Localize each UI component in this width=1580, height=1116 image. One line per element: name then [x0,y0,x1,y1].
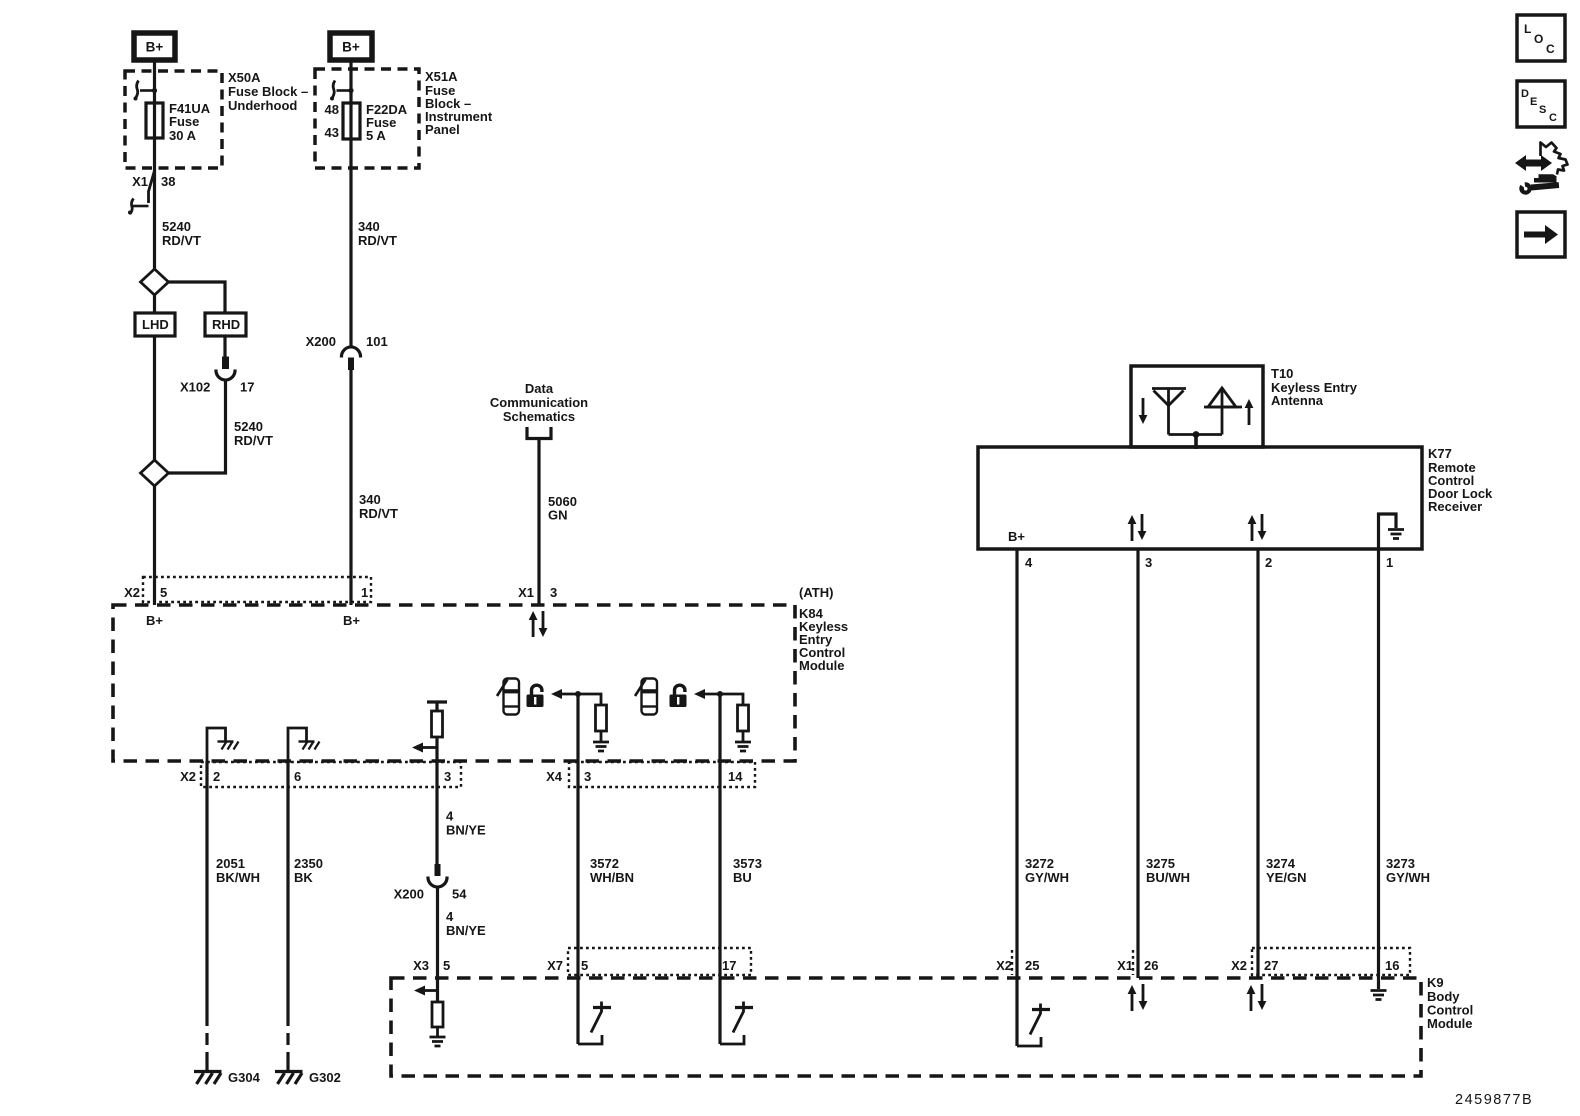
ground G304 [194,1062,222,1084]
output arrow inside K9 at pin X3-5 [414,986,438,996]
svg-text:340: 340 [358,219,380,234]
label 4 BN/YE lower [446,909,486,938]
antenna element right [1204,388,1242,435]
label X200 101 [306,334,388,349]
svg-text:X102: X102 [180,380,210,395]
svg-text:S: S [1539,104,1546,116]
svg-text:X2: X2 [996,958,1012,973]
svg-text:5: 5 [581,958,588,973]
label 5240 RD/VT [162,219,201,248]
wire K84 pin 14 to K9 switch [718,694,721,1044]
wire X102 to splice diamond S2 [169,382,226,474]
svg-text:BU/WH: BU/WH [1146,870,1190,885]
svg-text:B+: B+ [146,613,163,628]
svg-text:38: 38 [161,174,175,189]
K84 bottom connector pin box X4 (pins 3,14) dotted [569,762,755,787]
svg-text:3: 3 [550,585,557,600]
icon service double-arrow with wrench [1515,143,1568,195]
svg-text:14: 14 [728,769,743,784]
svg-text:30 A: 30 A [169,128,197,143]
icon LOC box [1517,15,1565,61]
K84 bottom connector pin box X2 (pins 2,6,3) dotted [201,762,461,787]
wire diamond S1 to RHD [169,282,226,313]
label 3273 GY/WH [1386,856,1430,885]
wire K77 pin 4 (B+) down to K9 pin X2-25 [1015,549,1018,1046]
signal arrow to door lock 2 [694,689,723,699]
label K9 Body Control Module [1427,975,1473,1031]
label X50A Fuse Block - Underhood [228,70,308,113]
svg-text:RD/VT: RD/VT [234,433,273,448]
svg-text:BU: BU [733,870,752,885]
svg-text:3275: 3275 [1146,856,1175,871]
svg-text:3572: 3572 [590,856,619,871]
svg-text:Schematics: Schematics [503,409,575,424]
svg-text:Fuse Block –: Fuse Block – [228,84,308,99]
svg-text:Antenna: Antenna [1271,393,1324,408]
svg-text:WH/BN: WH/BN [590,870,634,885]
svg-text:3: 3 [584,769,591,784]
icon DESC box [1517,81,1565,127]
bidirectional data arrows below pin X1-3 [529,611,548,637]
svg-text:4: 4 [446,809,454,824]
svg-text:YE/GN: YE/GN [1266,870,1306,885]
battery feed switch inside K9 at pin X2-25 [1017,1004,1050,1047]
module K9 Body Control Module dashed outline [391,978,1421,1076]
label 3274 YE/GN [1266,856,1306,885]
svg-text:17: 17 [240,380,254,395]
svg-text:GY/WH: GY/WH [1386,870,1430,885]
label 2350 BK [294,856,323,885]
internal ground inside K77 at pin 1 [1379,514,1405,549]
svg-text:1: 1 [1386,555,1393,570]
receive arrow down inside T10 [1139,398,1148,424]
label 3275 BU/WH [1146,856,1190,885]
svg-text:3: 3 [1145,555,1152,570]
B+ power symbol right [330,33,372,60]
svg-text:BN/YE: BN/YE [446,923,486,938]
wire K77 pin 2 down to K9 pin X2-27 [1256,549,1259,978]
wire K77 pin 1 down to K9 pin 16 [1377,549,1380,989]
svg-text:C: C [1546,42,1555,56]
car unlock indicator icon 2 (doors) [635,679,657,715]
connector X1 pin 38 inline symbol [128,171,155,215]
label F41UA Fuse 30 A [169,101,211,143]
svg-text:B+: B+ [146,40,164,55]
svg-text:3: 3 [444,769,451,784]
svg-text:4: 4 [446,909,454,924]
label X200 54 [394,887,468,902]
svg-text:Panel: Panel [425,122,460,137]
fuse F41UA [146,103,163,138]
svg-text:17: 17 [722,958,736,973]
data arrows inside K9 at pin 26 [1128,984,1148,1011]
wire B+ feed to fuse F22DA to connector X200 [349,62,352,346]
svg-text:B+: B+ [343,613,360,628]
svg-text:5: 5 [443,958,450,973]
transmit arrow up inside T10 [1245,399,1254,425]
label 4 BN/YE upper [446,809,486,838]
off-page reference bracket [527,427,551,439]
output arrow at K84 pin X2-3 [412,743,437,753]
svg-text:4: 4 [1025,555,1033,570]
svg-text:26: 26 [1144,958,1158,973]
wire K84 pin X2-6 to ground G302 [286,761,289,1014]
svg-text:X51A: X51A [425,69,458,84]
svg-text:K9: K9 [1427,975,1444,990]
antenna feed junction [1169,433,1223,436]
svg-text:5: 5 [160,585,167,600]
data arrows inside K77 at pin 2 [1248,514,1267,541]
svg-text:Module: Module [1427,1016,1473,1031]
svg-text:Receiver: Receiver [1428,499,1482,514]
label 3573 BU [733,856,762,885]
label 340 RD/VT second [359,492,398,521]
svg-text:X1: X1 [518,585,534,600]
fuse block X51A dashed outline [315,69,419,168]
svg-text:16: 16 [1385,958,1399,973]
label X3 5 at K9 pin [413,958,450,973]
svg-text:RHD: RHD [212,317,240,332]
padlock unlocked icon 2 [670,685,687,707]
svg-text:T10: T10 [1271,366,1293,381]
label 340 RD/VT [358,219,397,248]
label X102 17 [180,380,254,395]
label 5240 RD/VT second [234,419,273,448]
fuse block X50A dashed outline [125,71,222,168]
label 2051 BK/WH [216,856,260,885]
svg-text:GN: GN [548,508,568,523]
svg-text:Data: Data [525,381,554,396]
svg-text:340: 340 [359,492,381,507]
svg-text:G302: G302 [309,1070,341,1085]
svg-text:L: L [1524,22,1531,36]
svg-text:LHD: LHD [142,317,169,332]
svg-text:X2: X2 [124,585,140,600]
svg-text:3273: 3273 [1386,856,1415,871]
connector X200 pin 54 (male bar into female cup) [428,864,447,887]
svg-text:43: 43 [325,125,339,140]
svg-text:X4: X4 [546,769,563,784]
wire B+ feed to fuse F41UA to splice diamond to K84 pin X2-5 [153,62,156,605]
svg-text:101: 101 [366,334,388,349]
svg-text:B+: B+ [1008,529,1025,544]
svg-text:2: 2 [1265,555,1272,570]
door lock switch inside K9 at pin X7-5 [578,1002,611,1045]
svg-text:B+: B+ [342,40,360,55]
svg-text:3272: 3272 [1025,856,1054,871]
wire K84 pin X2-2 to ground G304 [205,761,208,1014]
termination resistor to ground inside K9 at pin X3-5 [430,1002,446,1046]
svg-text:Communication: Communication [490,395,588,410]
option box LHD [135,313,175,336]
svg-text:BK: BK [294,870,313,885]
svg-text:25: 25 [1025,958,1039,973]
pull-up resistor with ground, lock circuit 2 [720,694,751,751]
antenna T10 box [1131,366,1263,447]
padlock unlocked icon 1 [527,685,544,707]
wire X200-54 down to K9 pin X3-5 [436,889,439,1003]
car unlock indicator icon 1 (driver door) [497,679,519,715]
data arrows inside K9 at pin 27 [1247,984,1267,1011]
wire K84 pin X2-3 to connector X200 [435,787,438,876]
label Data Communication Schematics [490,381,588,424]
svg-text:2459877B: 2459877B [1455,1092,1533,1108]
terminal hook at fuse block X50A input [134,81,158,101]
svg-text:3274: 3274 [1266,856,1296,871]
svg-text:K77: K77 [1428,446,1452,461]
wire RHD to connector X102 [223,336,226,357]
label T10 Keyless Entry Antenna [1271,366,1358,408]
svg-text:5240: 5240 [162,219,191,234]
svg-text:54: 54 [452,887,467,902]
svg-text:X7: X7 [547,958,563,973]
antenna feed stub to receiver [1194,435,1198,450]
svg-text:6: 6 [294,769,301,784]
pin separator at X2-25 [1011,950,1013,975]
svg-text:G304: G304 [228,1070,261,1085]
label X1 38 [132,174,175,189]
antenna element left [1152,389,1186,435]
K9 connector pin box X2 (pins 27,16) dotted [1252,948,1410,975]
svg-text:2350: 2350 [294,856,323,871]
svg-text:GY/WH: GY/WH [1025,870,1069,885]
label K77 Remote Control Door Lock Receiver [1428,446,1493,514]
svg-text:D: D [1521,88,1529,100]
pull-up resistor with ground, lock circuit 1 [578,694,609,751]
svg-text:27: 27 [1264,958,1278,973]
svg-text:48: 48 [325,102,339,117]
wire serial data to K84 pin X1-3 [537,440,540,605]
svg-text:X3: X3 [413,958,429,973]
svg-text:RD/VT: RD/VT [358,233,397,248]
svg-text:1: 1 [361,585,368,600]
module K77 Remote Control Door Lock Receiver box [978,447,1422,549]
svg-text:5240: 5240 [234,419,263,434]
label X51A Fuse Block - Instrument Panel [425,69,493,137]
svg-text:X2: X2 [180,769,196,784]
svg-text:X2: X2 [1231,958,1247,973]
svg-text:Fuse: Fuse [169,114,199,129]
svg-text:X200: X200 [394,887,424,902]
internal ground bracket at K84 pin X2-2 [207,728,239,761]
icon forward-arrow box [1517,212,1565,257]
label 3272 GY/WH [1025,856,1069,885]
option box RHD [205,313,246,336]
fuse F22DA [343,103,360,139]
K84 connector pin box X2-5 to 1 (dotted) [143,577,371,602]
svg-text:5 A: 5 A [366,128,386,143]
wire X200 down to K84 pin 1 [349,370,352,605]
svg-text:3573: 3573 [733,856,762,871]
svg-text:RD/VT: RD/VT [162,233,201,248]
svg-text:X1: X1 [132,174,148,189]
label F22DA Fuse 5 A [366,102,408,143]
label (ATH) K84 Keyless Entry Control Module [799,585,848,673]
svg-text:E: E [1530,96,1537,108]
label 3572 WH/BN [590,856,634,885]
svg-text:BN/YE: BN/YE [446,823,486,838]
svg-text:O: O [1534,32,1543,46]
door lock switch inside K9 at pin 17 [720,1002,753,1045]
svg-text:X200: X200 [306,334,336,349]
data arrows inside K77 at pin 3 [1128,514,1147,541]
svg-text:Module: Module [799,658,845,673]
signal arrow to door lock 1 [551,689,581,699]
wire K77 pin 3 down to K9 pin X1-26 [1136,549,1139,978]
connector X102 pin 17 (male bar into female cup) [216,357,235,381]
svg-text:C: C [1549,112,1557,124]
splice diamond S2 [141,460,169,486]
B+ power symbol left [134,33,175,60]
ground G302 [275,1062,303,1084]
label 5060 GN [548,494,577,523]
svg-text:RD/VT: RD/VT [359,506,398,521]
svg-text:X50A: X50A [228,70,261,85]
K9 connector pin box X7 (pins 5,17) dotted [568,948,751,975]
svg-text:(ATH): (ATH) [799,585,833,600]
svg-text:2051: 2051 [216,856,245,871]
connector X200 pin 101 (female cup over male bar) [342,347,361,370]
wire K84 pin X4-3 to K9 switch [576,694,579,1044]
svg-text:X1: X1 [1117,958,1133,973]
label X1 3 at K84 pin [518,585,557,600]
pin separator at X1-26 [1132,950,1134,975]
svg-text:BK/WH: BK/WH [216,870,260,885]
splice diamond S1 [141,269,169,295]
svg-text:2: 2 [213,769,220,784]
internal ground inside K9 at pin 16 [1371,991,1387,1000]
internal ground bracket at K84 pin X2-6 [288,728,320,761]
svg-text:Underhood: Underhood [228,98,297,113]
module K84 Keyless Entry Control Module dashed outline [113,605,795,761]
termination resistor at K84 pin X2-3 [427,702,447,787]
terminal hook at fuse block X51A input [330,81,354,101]
